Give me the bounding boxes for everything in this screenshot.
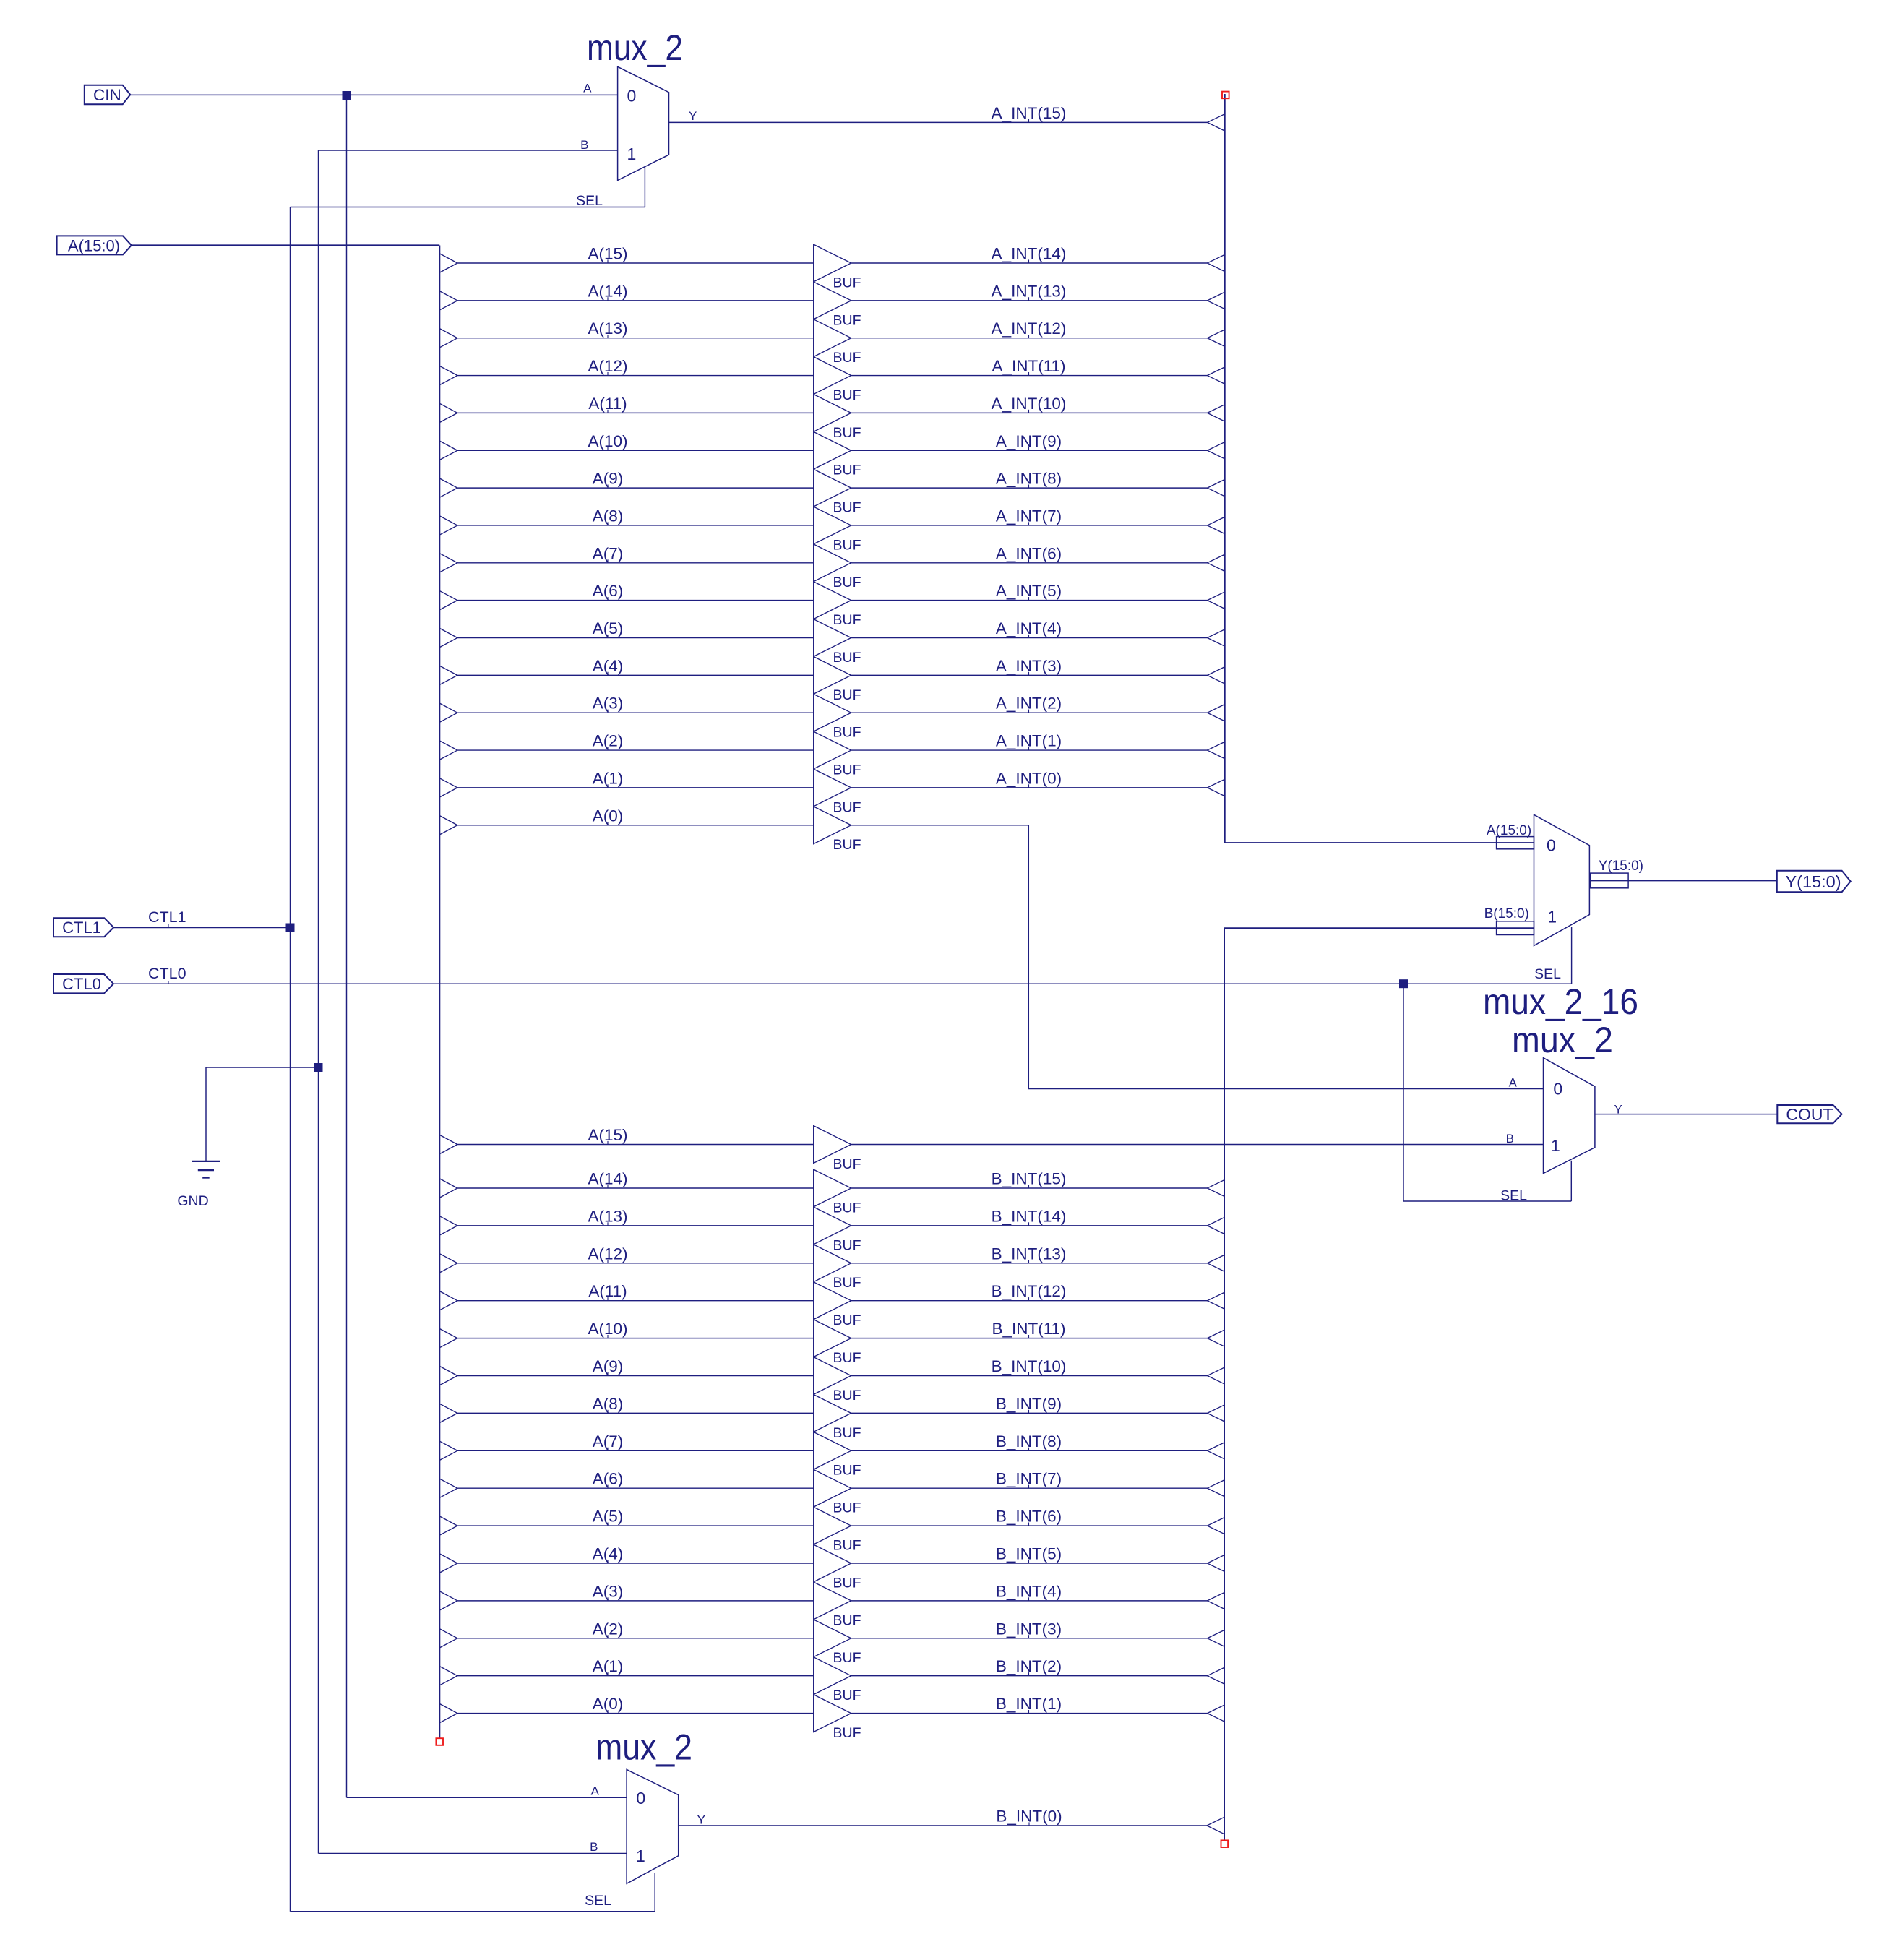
wire A(15) bbox=[457, 1144, 814, 1146]
bus tap A(2) bbox=[439, 741, 457, 760]
svg-text:A(15:0): A(15:0) bbox=[68, 236, 120, 254]
svg-text:B: B bbox=[590, 1840, 598, 1854]
bus rip A_INT(3) bbox=[1208, 667, 1225, 684]
bus tap A(6) bbox=[439, 591, 457, 610]
buffer BUF bbox=[814, 1507, 851, 1544]
wire A(14) bbox=[457, 300, 814, 301]
svg-text:BUF: BUF bbox=[833, 575, 861, 590]
bus tap A(0) bbox=[439, 816, 457, 835]
svg-text:1: 1 bbox=[627, 145, 637, 163]
bus tap A(12) bbox=[439, 366, 457, 384]
wire B_INT(14) bbox=[851, 1225, 1208, 1226]
bus rip A_INT(8) bbox=[1208, 479, 1225, 496]
wire A(2) bbox=[457, 749, 814, 751]
wire A(11) bbox=[457, 412, 814, 413]
output port COUT bbox=[1777, 1105, 1841, 1124]
bus rip B_INT(3) bbox=[1208, 1630, 1225, 1646]
wire A(9) bbox=[457, 1375, 814, 1377]
svg-text:0: 0 bbox=[1553, 1080, 1562, 1099]
svg-text:1: 1 bbox=[636, 1847, 645, 1865]
buffer bank1 row7: A(8) -> A_INT(7) bbox=[439, 507, 1224, 553]
bus B_INT(15:0) vertical to mux_2_16 B input bbox=[1224, 928, 1534, 1839]
buffer bank1 row5: A(10) -> A_INT(9) bbox=[439, 431, 1224, 478]
svg-text:SEL: SEL bbox=[1534, 966, 1561, 982]
bus rip A_INT(7) bbox=[1208, 517, 1225, 533]
bus rip A_INT(13) bbox=[1208, 292, 1225, 309]
wire A(9) bbox=[457, 487, 814, 489]
wire A_INT(4) bbox=[851, 637, 1208, 639]
input port CIN bbox=[85, 85, 130, 105]
svg-text:BUF: BUF bbox=[833, 612, 861, 628]
ground symbol GND bbox=[177, 1161, 220, 1209]
bus rip A_INT(9) bbox=[1208, 442, 1225, 459]
svg-text:BUF: BUF bbox=[833, 1200, 861, 1216]
buffer BUF bbox=[814, 1395, 851, 1432]
bus tap A(11) bbox=[439, 403, 457, 422]
component mux_2_16 (16-bit 2:1 mux) bbox=[1484, 814, 1777, 982]
buffer bank1 row13: A(2) -> A_INT(1) bbox=[439, 731, 1224, 778]
svg-text:1: 1 bbox=[1551, 1136, 1560, 1155]
wire B_INT(9) bbox=[851, 1412, 1208, 1414]
svg-text:A: A bbox=[591, 1784, 600, 1798]
wire A(3) bbox=[457, 712, 814, 713]
buffer BUF bbox=[814, 1657, 851, 1695]
bus tap A(8) bbox=[439, 1404, 457, 1422]
bus tap A(4) bbox=[439, 1554, 457, 1573]
svg-text:BUF: BUF bbox=[833, 1350, 861, 1366]
wire A(13) bbox=[457, 1225, 814, 1226]
buffer bank1 row15: A(0) -> COUT mux A bbox=[439, 807, 1543, 1089]
buffer BUF bbox=[814, 282, 851, 319]
svg-text:A: A bbox=[583, 82, 592, 95]
buffer bank1 row14: A(1) -> A_INT(0) bbox=[439, 769, 1224, 815]
bus rip B_INT(15) bbox=[1208, 1179, 1225, 1196]
buffer bank2 row12: A(3) -> B_INT(4) bbox=[439, 1582, 1224, 1628]
wire A(10) bbox=[457, 1338, 814, 1339]
buffer BUF bbox=[814, 319, 851, 357]
buffer BUF bbox=[814, 469, 851, 507]
buffer bank1 row4: A(11) -> A_INT(10) bbox=[439, 395, 1224, 441]
wire A(11) bbox=[457, 1300, 814, 1302]
bus rip B_INT(7) bbox=[1208, 1480, 1225, 1497]
bus rip A_INT(4) bbox=[1208, 629, 1225, 646]
bus rip B_INT(9) bbox=[1208, 1405, 1225, 1422]
svg-text:0: 0 bbox=[627, 87, 637, 106]
buffer bank2 row8: A(7) -> B_INT(8) bbox=[439, 1432, 1224, 1478]
buffer BUF bbox=[814, 395, 851, 432]
svg-text:Y(15:0): Y(15:0) bbox=[1599, 859, 1643, 874]
svg-text:mux_2: mux_2 bbox=[587, 27, 683, 68]
wire A(5) bbox=[457, 637, 814, 639]
wire B_INT(6) bbox=[851, 1525, 1208, 1526]
bus rip B_INT(4) bbox=[1208, 1592, 1225, 1609]
wire A_INT(6) bbox=[851, 562, 1208, 564]
svg-text:CIN: CIN bbox=[93, 86, 121, 104]
buffer BUF bbox=[814, 731, 851, 769]
bus A(15:0) from port down left side bbox=[132, 246, 439, 1738]
wire B_INT(2) bbox=[851, 1675, 1208, 1677]
bus tap A(10) bbox=[439, 441, 457, 460]
bus rip A_INT(14) bbox=[1208, 254, 1225, 271]
bus tap A(9) bbox=[439, 478, 457, 497]
bus rip B_INT(5) bbox=[1208, 1555, 1225, 1571]
svg-text:BUF: BUF bbox=[833, 725, 861, 741]
svg-text:A: A bbox=[1509, 1076, 1518, 1090]
svg-text:SEL: SEL bbox=[576, 193, 603, 209]
svg-text:BUF: BUF bbox=[833, 687, 861, 703]
svg-text:SEL: SEL bbox=[585, 1893, 611, 1909]
svg-text:BUF: BUF bbox=[833, 275, 861, 291]
wire buffer output to COUT mux A bbox=[851, 825, 1544, 1089]
bus tap A(12) bbox=[439, 1254, 457, 1273]
buffer BUF bbox=[814, 244, 851, 282]
bus end marker (red) bbox=[436, 1738, 443, 1745]
svg-text:BUF: BUF bbox=[833, 1500, 861, 1516]
buffer BUF bbox=[814, 656, 851, 694]
svg-text:BUF: BUF bbox=[833, 425, 861, 441]
bus rip B_INT(13) bbox=[1208, 1255, 1225, 1271]
bus tap A(7) bbox=[439, 1441, 457, 1460]
bus pin stub A(15:0) bbox=[1497, 837, 1534, 849]
buffer BUF bbox=[814, 619, 851, 657]
buffer bank2 row0: A(15) -> COUT mux B bbox=[439, 1126, 1543, 1172]
wire A_INT(8) bbox=[851, 487, 1208, 489]
wire COUT from mux Y to port bbox=[1595, 1114, 1777, 1115]
buffer BUF bbox=[814, 769, 851, 807]
wire A(8) bbox=[457, 1412, 814, 1414]
buffer bank2 row15: A(0) -> B_INT(1) bbox=[439, 1695, 1224, 1741]
wire A(7) bbox=[457, 1450, 814, 1451]
component mux_2 (bottom) bbox=[585, 1769, 705, 1909]
bus rip A_INT(12) bbox=[1208, 330, 1225, 346]
svg-text:BUF: BUF bbox=[833, 1275, 861, 1291]
svg-text:BUF: BUF bbox=[833, 500, 861, 516]
svg-text:BUF: BUF bbox=[833, 1156, 861, 1172]
svg-text:BUF: BUF bbox=[833, 387, 861, 403]
wire B_INT(5) bbox=[851, 1563, 1208, 1564]
buffer BUF bbox=[814, 357, 851, 395]
wire A(8) bbox=[457, 525, 814, 526]
buffer BUF bbox=[814, 1620, 851, 1657]
buffer bank1 row8: A(7) -> A_INT(6) bbox=[439, 544, 1224, 590]
bus rip B_INT(8) bbox=[1208, 1443, 1225, 1459]
wire B_INT(3) bbox=[851, 1638, 1208, 1639]
output port Y(15:0) bbox=[1777, 871, 1851, 892]
buffer bank2 row2: A(13) -> B_INT(14) bbox=[439, 1207, 1224, 1253]
svg-text:mux_2: mux_2 bbox=[1512, 1020, 1613, 1060]
wire B_INT(4) bbox=[851, 1600, 1208, 1602]
bus rip A_INT(6) bbox=[1208, 554, 1225, 571]
svg-text:COUT: COUT bbox=[1786, 1105, 1833, 1124]
svg-text:BUF: BUF bbox=[833, 537, 861, 553]
wire A(3) bbox=[457, 1600, 814, 1602]
svg-text:B: B bbox=[1506, 1132, 1514, 1146]
wire A(13) bbox=[457, 338, 814, 339]
svg-text:0: 0 bbox=[1547, 835, 1556, 854]
buffer BUF bbox=[814, 1469, 851, 1507]
wire Y(15:0) to output port bbox=[1589, 880, 1776, 882]
svg-text:GND: GND bbox=[177, 1193, 208, 1209]
bus tap A(3) bbox=[439, 703, 457, 722]
svg-text:BUF: BUF bbox=[833, 1312, 861, 1328]
buffer bank2 row7: A(8) -> B_INT(9) bbox=[439, 1395, 1224, 1441]
bus rip B_INT(2) bbox=[1208, 1667, 1225, 1684]
svg-text:CTL1: CTL1 bbox=[62, 919, 101, 937]
buffer BUF bbox=[814, 1357, 851, 1395]
buffer bank2 row5: A(10) -> B_INT(11) bbox=[439, 1320, 1224, 1366]
wire A(2) bbox=[457, 1638, 814, 1639]
wire A(7) bbox=[457, 562, 814, 564]
wire B_INT(11) bbox=[851, 1338, 1208, 1339]
svg-text:BUF: BUF bbox=[833, 1688, 861, 1703]
bus rip B_INT(6) bbox=[1208, 1517, 1225, 1534]
svg-text:BUF: BUF bbox=[833, 1575, 861, 1591]
buffer bank1 row3: A(12) -> A_INT(11) bbox=[439, 357, 1224, 403]
wire A(12) bbox=[457, 1263, 814, 1264]
wire A(6) bbox=[457, 1487, 814, 1489]
svg-text:SEL: SEL bbox=[1500, 1188, 1527, 1204]
wire B_INT(7) bbox=[851, 1487, 1208, 1489]
svg-text:BUF: BUF bbox=[833, 312, 861, 328]
svg-text:Y(15:0): Y(15:0) bbox=[1785, 872, 1841, 891]
svg-text:mux_2: mux_2 bbox=[595, 1727, 692, 1768]
svg-text:BUF: BUF bbox=[833, 1612, 861, 1628]
bus tap A(2) bbox=[439, 1629, 457, 1648]
svg-text:mux_2_16: mux_2_16 bbox=[1483, 981, 1638, 1022]
wire A_INT(10) bbox=[851, 412, 1208, 413]
svg-text:BUF: BUF bbox=[833, 1463, 861, 1479]
wire A(15) bbox=[457, 262, 814, 264]
bus source marker (red) bbox=[1222, 92, 1229, 99]
buffer BUF bbox=[814, 1582, 851, 1620]
buffer bank1 row2: A(13) -> A_INT(12) bbox=[439, 319, 1224, 366]
bus tap A(5) bbox=[439, 1516, 457, 1535]
bus tap A(13) bbox=[439, 1216, 457, 1235]
buffer BUF bbox=[814, 1169, 851, 1207]
buffer bank2 row3: A(12) -> B_INT(13) bbox=[439, 1245, 1224, 1291]
bus pin stub Y(15:0) bbox=[1591, 873, 1629, 888]
buffer bank2 row1: A(14) -> B_INT(15) bbox=[439, 1169, 1224, 1216]
bus tap A(1) bbox=[439, 778, 457, 797]
bus tap A(15) bbox=[439, 254, 457, 272]
wire A(1) bbox=[457, 787, 814, 788]
svg-text:B: B bbox=[580, 138, 588, 152]
svg-text:BUF: BUF bbox=[833, 1538, 861, 1554]
bus tap A(14) bbox=[439, 291, 457, 310]
junction CTL0 branch bbox=[1399, 979, 1408, 988]
wire A(6) bbox=[457, 600, 814, 601]
buffer BUF bbox=[814, 1282, 851, 1320]
buffer bank2 row14: A(1) -> B_INT(2) bbox=[439, 1657, 1224, 1703]
svg-text:BUF: BUF bbox=[833, 799, 861, 815]
wire buffer output to COUT mux B bbox=[851, 1144, 1544, 1146]
svg-text:1: 1 bbox=[1547, 907, 1557, 926]
bus rip A_INT(1) bbox=[1208, 742, 1225, 758]
wire A(0) bbox=[457, 1713, 814, 1714]
svg-text:B(15:0): B(15:0) bbox=[1484, 906, 1529, 921]
wire A_INT(11) bbox=[851, 375, 1208, 377]
junction CTL1 / SEL bbox=[286, 924, 295, 932]
bus rip B_INT(10) bbox=[1208, 1367, 1225, 1384]
bus end marker (red) bbox=[1221, 1840, 1229, 1847]
bus tap A(9) bbox=[439, 1366, 457, 1385]
wire B_INT(13) bbox=[851, 1263, 1208, 1264]
buffer BUF bbox=[814, 431, 851, 469]
buffer BUF bbox=[814, 1245, 851, 1282]
svg-text:CTL1: CTL1 bbox=[148, 908, 186, 926]
svg-text:BUF: BUF bbox=[833, 1725, 861, 1741]
bus rip B_INT(11) bbox=[1208, 1330, 1225, 1346]
wire CTL0 from port to mux_2_16 SEL bbox=[113, 927, 1572, 984]
buffer bank1 row9: A(6) -> A_INT(5) bbox=[439, 582, 1224, 628]
bus rip A_INT(0) bbox=[1208, 779, 1225, 796]
bus pin stub B(15:0) bbox=[1497, 921, 1534, 935]
buffer bank1 row0: A(15) -> A_INT(14) bbox=[439, 244, 1224, 291]
bus tap A(8) bbox=[439, 516, 457, 535]
buffer BUF bbox=[814, 1126, 851, 1164]
svg-text:A(15:0): A(15:0) bbox=[1487, 823, 1531, 838]
input port A(15:0) bbox=[57, 236, 132, 254]
bus tap A(4) bbox=[439, 666, 457, 684]
svg-text:BUF: BUF bbox=[833, 1650, 861, 1666]
svg-text:BUF: BUF bbox=[833, 1237, 861, 1253]
label mux_2_16 title bbox=[1483, 981, 1638, 1060]
wire B_INT(10) bbox=[851, 1375, 1208, 1377]
net label CTL1 bbox=[148, 908, 186, 927]
bus tap A(7) bbox=[439, 554, 457, 572]
wire A(4) bbox=[457, 674, 814, 676]
wire CTL0 branch to COUT mux SEL bbox=[1403, 984, 1571, 1201]
bus rip A_INT(10) bbox=[1208, 405, 1225, 421]
buffer BUF bbox=[814, 1695, 851, 1732]
buffer BUF bbox=[814, 582, 851, 619]
wire A_INT(2) bbox=[851, 712, 1208, 713]
buffer bank1 row12: A(3) -> A_INT(2) bbox=[439, 694, 1224, 740]
junction GND net bbox=[314, 1063, 323, 1072]
wire A(5) bbox=[457, 1525, 814, 1526]
bus rip B_INT(0) bbox=[1207, 1817, 1224, 1834]
wire A(12) bbox=[457, 375, 814, 377]
buffer bank2 row9: A(6) -> B_INT(7) bbox=[439, 1469, 1224, 1516]
wire A(0) bbox=[457, 825, 814, 826]
wire GND stub bbox=[206, 1067, 319, 1161]
bus tap A(3) bbox=[439, 1591, 457, 1610]
svg-text:Y: Y bbox=[697, 1813, 705, 1826]
bus tap A(13) bbox=[439, 329, 457, 348]
bus rip A_INT(15) bbox=[1208, 114, 1225, 131]
wire B_INT(0) from bottom mux Y to bus rip bbox=[679, 1825, 1208, 1826]
buffer bank1 row10: A(5) -> A_INT(4) bbox=[439, 619, 1224, 666]
buffer BUF bbox=[814, 1432, 851, 1469]
svg-text:CTL0: CTL0 bbox=[148, 965, 186, 982]
bus tap A(11) bbox=[439, 1291, 457, 1310]
input port CTL0 bbox=[53, 974, 113, 993]
wire CIN branch down to bottom mux_2 pin A bbox=[347, 95, 627, 1797]
wire A_INT(3) bbox=[851, 674, 1208, 676]
buffer bank1 row1: A(14) -> A_INT(13) bbox=[439, 282, 1224, 328]
wire A(10) bbox=[457, 450, 814, 451]
wire A_INT(15) from M1 Y to A bus rip bbox=[669, 121, 1208, 123]
bus A_INT(15:0) vertical to mux_2_16 A input bbox=[1225, 94, 1534, 843]
bus tap A(1) bbox=[439, 1667, 457, 1685]
bus tap A(5) bbox=[439, 628, 457, 647]
svg-text:CTL0: CTL0 bbox=[62, 975, 101, 993]
bus tap A(15) bbox=[439, 1135, 457, 1153]
bus rip B_INT(1) bbox=[1208, 1705, 1225, 1722]
bus tap A(6) bbox=[439, 1479, 457, 1497]
input port CTL1 bbox=[53, 918, 113, 937]
buffer bank1 row6: A(9) -> A_INT(8) bbox=[439, 469, 1224, 515]
buffer bank2 row11: A(4) -> B_INT(5) bbox=[439, 1544, 1224, 1591]
wire B_INT(15) bbox=[851, 1187, 1208, 1189]
svg-text:BUF: BUF bbox=[833, 1425, 861, 1441]
wire A_INT(13) bbox=[851, 300, 1208, 301]
svg-text:0: 0 bbox=[636, 1789, 645, 1808]
wire GND vertical to mux_2 M1 pin B and bottom mux_2 pin B bbox=[319, 150, 627, 1854]
junction CIN branch bbox=[343, 91, 351, 100]
component mux_2 (COUT mux) bbox=[1500, 1058, 1622, 1204]
wire A(14) bbox=[457, 1187, 814, 1189]
buffer bank2 row13: A(2) -> B_INT(3) bbox=[439, 1620, 1224, 1666]
wire A(1) bbox=[457, 1675, 814, 1677]
bus rip B_INT(14) bbox=[1208, 1217, 1225, 1234]
wire B_INT(8) bbox=[851, 1450, 1208, 1451]
bus tap A(14) bbox=[439, 1179, 457, 1198]
svg-text:BUF: BUF bbox=[833, 762, 861, 778]
bus tap A(10) bbox=[439, 1329, 457, 1348]
buffer bank1 row11: A(4) -> A_INT(3) bbox=[439, 656, 1224, 702]
buffer BUF bbox=[814, 544, 851, 582]
svg-text:Y: Y bbox=[689, 109, 697, 123]
wire A_INT(9) bbox=[851, 450, 1208, 451]
wire A(4) bbox=[457, 1563, 814, 1564]
svg-text:BUF: BUF bbox=[833, 463, 861, 478]
buffer BUF bbox=[814, 694, 851, 731]
wire A_INT(12) bbox=[851, 338, 1208, 339]
svg-text:BUF: BUF bbox=[833, 350, 861, 366]
wire A_INT(5) bbox=[851, 600, 1208, 601]
buffer BUF bbox=[814, 1207, 851, 1245]
buffer BUF bbox=[814, 507, 851, 544]
bus rip B_INT(12) bbox=[1208, 1292, 1225, 1309]
wire CTL1 from port to SEL column bbox=[113, 927, 290, 929]
wire A_INT(1) bbox=[851, 749, 1208, 751]
buffer BUF bbox=[814, 807, 851, 844]
net label CTL0 bbox=[148, 965, 186, 984]
wire A_INT(0) bbox=[851, 787, 1208, 788]
bus rip A_INT(2) bbox=[1208, 705, 1225, 721]
bus tap A(0) bbox=[439, 1704, 457, 1723]
wire A_INT(7) bbox=[851, 525, 1208, 526]
buffer bank2 row10: A(5) -> B_INT(6) bbox=[439, 1507, 1224, 1553]
wire B_INT(12) bbox=[851, 1300, 1208, 1302]
wire SEL column to mux_2 M1 SEL and bottom mux_2 SEL bbox=[291, 166, 655, 1912]
buffer BUF bbox=[814, 1320, 851, 1357]
bus rip A_INT(11) bbox=[1208, 367, 1225, 384]
buffer BUF bbox=[814, 1544, 851, 1582]
svg-text:BUF: BUF bbox=[833, 1388, 861, 1404]
svg-text:BUF: BUF bbox=[833, 650, 861, 666]
wire B_INT(1) bbox=[851, 1713, 1208, 1714]
wire A_INT(14) bbox=[851, 262, 1208, 264]
bus rip A_INT(5) bbox=[1208, 592, 1225, 609]
buffer bank2 row6: A(9) -> B_INT(10) bbox=[439, 1357, 1224, 1404]
buffer bank2 row4: A(11) -> B_INT(12) bbox=[439, 1282, 1224, 1328]
wire CIN from port to mux_2 M1 pin A bbox=[130, 94, 617, 95]
svg-text:BUF: BUF bbox=[833, 837, 861, 853]
component mux_2 M1 (top) bbox=[576, 66, 697, 209]
